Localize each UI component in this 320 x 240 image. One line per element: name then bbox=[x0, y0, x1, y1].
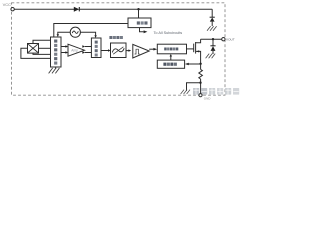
terminal VCC bbox=[11, 8, 14, 11]
wire driver to MOSFET gate bbox=[187, 48, 194, 50]
arrowhead into driver bottom bbox=[170, 54, 172, 57]
oscillator circle OSC bbox=[70, 27, 80, 37]
wire VCC rail right bbox=[79, 8, 212, 10]
wire VCC rail left bbox=[14, 8, 74, 10]
divider block box bbox=[91, 38, 101, 58]
node junction on rail above regulator bbox=[137, 8, 139, 10]
arrowhead into oscillator block top bbox=[57, 34, 59, 37]
ground hatch under D3 bbox=[206, 54, 216, 59]
ground hatch under oscillator block bbox=[49, 68, 60, 73]
crystal X1 box bbox=[28, 44, 39, 54]
arrowhead amp output 2 bbox=[82, 51, 85, 53]
oscillator block box (crystal osc circuit) bbox=[51, 37, 62, 67]
arrowhead to all subcircuits bbox=[144, 30, 148, 33]
wire comparator to driver bbox=[149, 48, 153, 50]
wire junction to resistor R1 bbox=[200, 64, 202, 70]
wire resistor to GND terminal bbox=[200, 79, 202, 94]
wire regulator left output to oscillator block bbox=[54, 24, 128, 38]
Q1 source arrow bbox=[196, 50, 199, 52]
arrowhead into divider top bbox=[94, 35, 96, 38]
wire regulator to subcircuits arrow bbox=[140, 28, 144, 32]
wire block to amp input 1 bbox=[61, 46, 66, 48]
arrowhead into driver bbox=[153, 48, 157, 51]
node junction source sense bbox=[199, 63, 201, 65]
op-amp A1 triangle bbox=[68, 44, 85, 56]
wire divider to filter bbox=[101, 50, 108, 52]
wire amp output 2 to divider bbox=[85, 52, 91, 54]
svg-text:VOUT: VOUT bbox=[226, 37, 235, 41]
wire oscillator block to ground bbox=[55, 67, 57, 69]
watermark text band bbox=[193, 88, 239, 95]
wire crystal left loop to block bbox=[21, 48, 51, 58]
resistor R1 zigzag bbox=[199, 69, 203, 79]
sine symbol inside OSC bbox=[72, 31, 78, 33]
diode D3 (cathode up) bbox=[210, 46, 215, 54]
current limit label (simulated CJK) bbox=[163, 63, 177, 66]
wire crystal top to block bbox=[33, 40, 51, 43]
transistor Q1 MOSFET bbox=[194, 39, 201, 64]
filter wave symbol bbox=[112, 48, 124, 52]
wire VOUT line bbox=[201, 38, 222, 40]
wire current limit up to driver bbox=[170, 56, 172, 60]
wire crystal bottom to block bbox=[33, 53, 51, 54]
square wave glyph inside A2 bbox=[135, 49, 140, 54]
comparator A2 triangle bbox=[133, 44, 149, 58]
diode D1 on VCC rail bbox=[74, 7, 80, 12]
filter box F1 bbox=[111, 43, 127, 58]
filter slash symbol bbox=[113, 47, 123, 54]
wire substrate branch bbox=[187, 83, 201, 91]
wire junction to diode D3 bbox=[212, 39, 214, 46]
wire rail corner down to clamp diode D2 bbox=[211, 9, 213, 17]
arrowhead amp input 2 bbox=[65, 51, 68, 53]
wire OSC right to divider top bbox=[80, 32, 95, 35]
wire crystal right to block bbox=[39, 47, 51, 49]
divider block vertical label (simulated CJK) bbox=[95, 41, 98, 57]
IC boundary dashed border bbox=[12, 3, 226, 95]
driver block box bbox=[157, 44, 186, 54]
wire block to amp input 2 bbox=[61, 52, 66, 54]
svg-text:To All Subcircuits: To All Subcircuits bbox=[154, 31, 183, 35]
node junction substrate branch bbox=[199, 82, 201, 84]
svg-text:VCC: VCC bbox=[3, 2, 12, 7]
svg-text:Amp: Amp bbox=[71, 48, 78, 52]
regulator U1 label (simulated CJK) bbox=[137, 21, 148, 24]
terminal GND bbox=[199, 94, 202, 97]
diode D2 clamp (cathode up) bbox=[210, 17, 215, 26]
label low-pass filter (simulated CJK) bbox=[109, 36, 123, 39]
current limit block box bbox=[157, 60, 184, 68]
wire filter to comparator bbox=[126, 50, 129, 52]
arrowhead into current limit right bbox=[185, 63, 189, 66]
regulator U1 box bbox=[128, 18, 151, 28]
arrowhead into filter bbox=[108, 49, 111, 51]
ground hatch under D2 bbox=[207, 26, 217, 31]
driver block label (simulated CJK) bbox=[164, 48, 178, 51]
terminal VOUT bbox=[222, 38, 225, 41]
node junction on VOUT line bbox=[212, 38, 214, 40]
arrowhead into comparator bbox=[128, 49, 131, 51]
wire OSC left to oscillator block top bbox=[58, 32, 70, 34]
wire sense node to current limit bbox=[189, 63, 201, 65]
arrowhead amp input 1 bbox=[65, 45, 68, 47]
ground hatch substrate bbox=[181, 90, 190, 94]
wire amp output 1 to divider bbox=[85, 46, 91, 48]
arrowhead amp output 1 bbox=[82, 45, 85, 47]
crystal X1 cross bbox=[28, 44, 38, 52]
oscillator block vertical label (simulated CJK) bbox=[54, 40, 57, 65]
wire rail to regulator top bbox=[138, 9, 140, 18]
svg-text:GND: GND bbox=[204, 97, 212, 101]
